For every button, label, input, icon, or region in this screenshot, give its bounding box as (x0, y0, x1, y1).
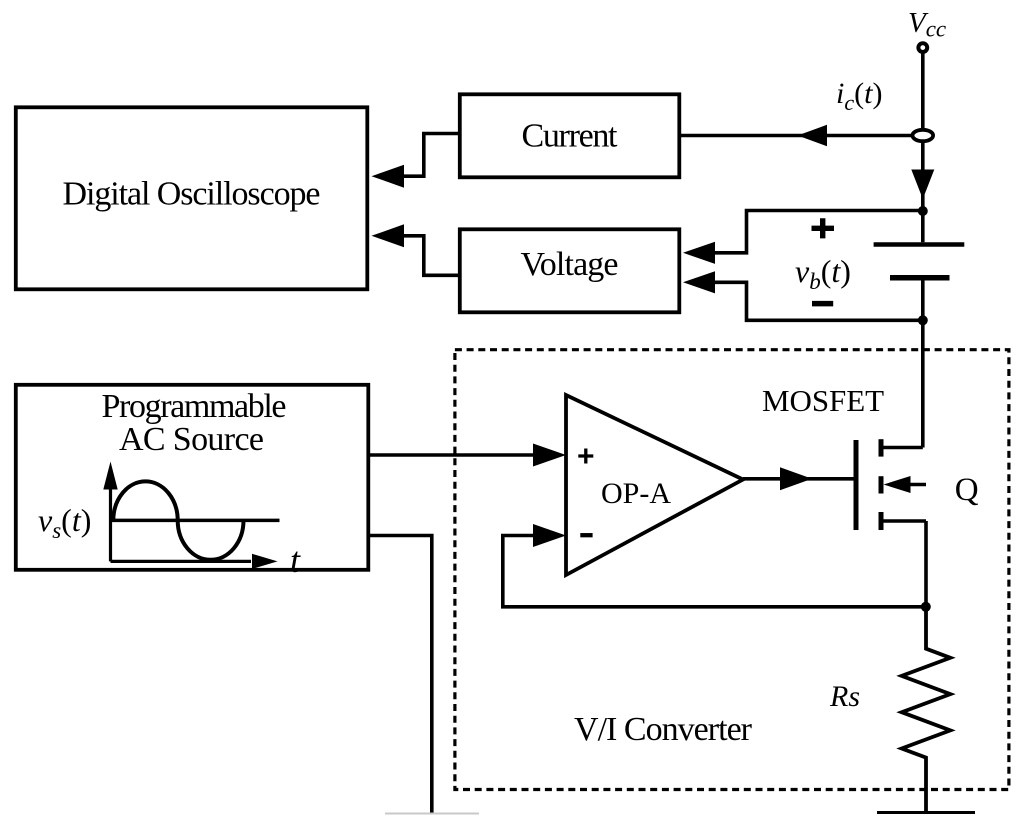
wire Vcc terminal down to current tap (921, 52, 925, 130)
MOSFET drain lead (881, 446, 923, 450)
battery + sign (812, 218, 835, 238)
wire MOSFET source down to feedback node (924, 521, 928, 607)
svg-text:vb(t): vb(t) (795, 253, 851, 294)
wire op-amp output to MOSFET gate (743, 477, 856, 481)
svg-text:ic(t): ic(t) (836, 77, 882, 115)
MOSFET channel bar bottom (source) (879, 512, 884, 530)
wire battery bottom sense bracket (712, 282, 923, 320)
battery plate short (-) (890, 275, 950, 281)
node battery bottom (918, 315, 928, 325)
faint ground remnant (385, 813, 479, 815)
svg-text:AC Source: AC Source (119, 421, 264, 458)
ground (877, 811, 975, 814)
sine sketch time axis arrowhead (252, 554, 278, 569)
arrowhead into Voltage block (+) (683, 242, 715, 264)
svg-text:Voltage: Voltage (521, 246, 619, 283)
svg-text:t: t (290, 540, 301, 580)
battery - sign (812, 301, 833, 307)
op-amp U1 triangle (566, 395, 743, 575)
svg-text:Programmable: Programmable (102, 388, 287, 425)
Vcc terminal circle (918, 43, 927, 52)
svg-text:Rs: Rs (829, 680, 860, 713)
block Current probe (460, 94, 680, 177)
wire AC source output to op-amp + input (370, 453, 540, 457)
wire battery bottom to MOSFET drain (921, 280, 925, 448)
MOSFET body arrowhead (884, 476, 911, 493)
dashed box V/I converter (455, 350, 1009, 790)
arrowhead into Current block (798, 125, 827, 146)
svg-text:Current: Current (522, 118, 619, 155)
MOSFET channel bar middle (body) (879, 476, 884, 493)
op-amp + sign (578, 449, 593, 464)
arrowhead into op-amp + input (533, 444, 566, 467)
resistor Rs (902, 607, 951, 813)
arrowhead into oscilloscope (voltage) (372, 224, 405, 247)
node battery top (918, 206, 928, 216)
wire current sense to Current block (681, 134, 913, 138)
MOSFET source lead (881, 519, 926, 523)
sine sketch time axis (111, 560, 252, 563)
block Digital Oscilloscope (16, 107, 368, 289)
svg-text:V/I Converter: V/I Converter (574, 711, 753, 748)
wire Current block to oscilloscope (403, 134, 458, 177)
sine sketch zero line (111, 519, 280, 523)
MOSFET body lead (901, 483, 926, 487)
MOSFET channel bar top (drain) (879, 439, 884, 456)
sine sketch vertical axis arrowhead (103, 462, 117, 490)
svg-text:Digital Oscilloscope: Digital Oscilloscope (63, 176, 321, 213)
sine sketch vertical axis (109, 486, 112, 561)
block Programmable AC Source (16, 385, 369, 570)
svg-text:vs(t): vs(t) (38, 502, 91, 543)
wire Voltage block to oscilloscope (403, 236, 458, 275)
current tap ellipse (913, 130, 934, 141)
op-amp - sign (580, 533, 592, 537)
wire current tap down to battery node (921, 141, 925, 242)
block Voltage probe (460, 229, 680, 312)
arrowhead on op-amp output (780, 467, 812, 490)
arrowhead into Voltage block (-) (683, 271, 715, 293)
current direction arrowhead down (911, 170, 934, 200)
node feedback junction (921, 602, 931, 612)
wire feedback to op-amp - input (503, 536, 926, 607)
svg-text:OP-A: OP-A (601, 477, 671, 510)
svg-text:Q: Q (955, 472, 979, 508)
wire battery top sense bracket (712, 211, 923, 253)
svg-text:MOSFET: MOSFET (762, 383, 884, 418)
sine waveform (113, 481, 243, 559)
arrowhead into op-amp - input (533, 524, 566, 547)
battery plate long (+) (874, 242, 965, 247)
arrowhead into oscilloscope (current) (372, 165, 405, 188)
MOSFET gate bar (854, 440, 859, 530)
wire AC source lower terminal down (370, 536, 432, 815)
